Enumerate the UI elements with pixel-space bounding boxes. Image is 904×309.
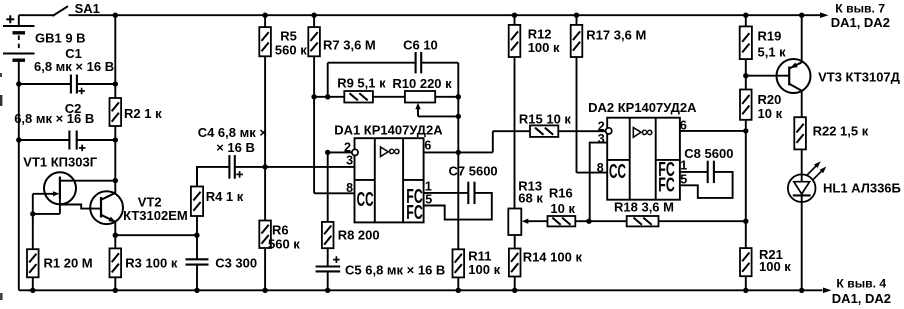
svg-text:R14 100 к: R14 100 к <box>523 250 583 265</box>
capacitor C3 <box>186 235 258 290</box>
svg-text:C8 5600: C8 5600 <box>684 146 733 161</box>
resistor R5 <box>259 15 307 167</box>
capacitor C1 <box>19 46 116 94</box>
R13 wiper arrow <box>522 219 548 224</box>
svg-text:GB1 9 В: GB1 9 В <box>35 31 86 46</box>
junction VT1 drain / VT2 collector <box>113 178 118 183</box>
svg-text:R2 1 к: R2 1 к <box>124 106 162 121</box>
svg-text:FC: FC <box>658 174 675 197</box>
svg-text:1: 1 <box>425 179 432 193</box>
svg-text:3: 3 <box>346 153 353 167</box>
svg-text:КТ3102ЕМ: КТ3102ЕМ <box>123 208 188 223</box>
svg-text:× 16 В: × 16 В <box>216 140 255 155</box>
svg-text:R3 100 к: R3 100 к <box>125 255 178 270</box>
wire VT1 source to VT2 base <box>60 205 101 209</box>
DA1 FC label pin5 <box>406 201 423 224</box>
wire VT2 emitter to R4/C3 <box>115 234 197 236</box>
junction top rail R7 <box>311 13 316 18</box>
svg-text:DA2 КР1407УД2А: DA2 КР1407УД2А <box>588 100 697 115</box>
svg-text:DA1, DA2: DA1, DA2 <box>831 15 890 30</box>
junction C2 left <box>16 137 21 142</box>
DA2 CC label <box>609 160 626 183</box>
wire top supply rail <box>69 14 821 16</box>
DA1 pin 6 wire <box>424 139 493 153</box>
DA2 pin 8 label <box>597 161 604 175</box>
svg-text:3: 3 <box>598 132 605 146</box>
svg-text:FC: FC <box>406 201 423 224</box>
svg-text:R20: R20 <box>758 92 782 107</box>
junction R14 ground <box>512 288 517 293</box>
junction top rail VT3 <box>799 13 804 18</box>
junction R19-R20-base <box>743 73 748 78</box>
transistor VT1 <box>23 155 97 205</box>
junction DA2 pin6 / R20 / R21 <box>743 128 748 133</box>
wire left rail <box>19 60 30 290</box>
junction R3 ground <box>113 288 118 293</box>
svg-text:C3 300: C3 300 <box>215 256 257 271</box>
transistor VT3 <box>777 15 901 117</box>
switch SA1 <box>19 1 100 16</box>
junction R6 ground <box>262 288 267 293</box>
DA1 pin 8 label <box>346 181 353 195</box>
svg-text:10 к: 10 к <box>550 201 575 216</box>
resistor R16 <box>548 185 590 226</box>
svg-text:R15 10 к: R15 10 к <box>519 112 572 127</box>
svg-text:DA1, DA2: DA1, DA2 <box>832 291 891 306</box>
DA1 FC label pin1 <box>406 185 423 208</box>
resistor R14 <box>509 235 583 290</box>
capacitor C6 <box>328 38 459 74</box>
svg-text:8: 8 <box>346 181 353 195</box>
junction top rail R2 <box>113 13 118 18</box>
junction HL1 ground <box>799 288 804 293</box>
junction C3 ground <box>194 288 199 293</box>
wire C6 left vertical <box>327 63 329 97</box>
capacitor C2 <box>14 101 115 151</box>
svg-text:C7 5600: C7 5600 <box>449 164 498 179</box>
svg-text:5: 5 <box>425 193 432 207</box>
svg-text:C6 10: C6 10 <box>403 38 438 53</box>
DA2 pin 3 wire <box>590 132 608 221</box>
resistor R15 <box>519 112 605 137</box>
svg-text:2: 2 <box>344 140 351 154</box>
junction VT2 emitter <box>113 233 118 238</box>
transistor VT2 <box>90 181 188 236</box>
resistor R19 <box>740 15 786 89</box>
resistor R17 <box>571 15 647 172</box>
battery GB1 <box>3 15 86 60</box>
junction C6/R9 row left <box>325 94 330 99</box>
svg-text:560 к: 560 к <box>275 43 307 58</box>
svg-text:5,1 к: 5,1 к <box>758 45 787 60</box>
junction C5 ground <box>325 288 330 293</box>
svg-text:10 к: 10 к <box>758 106 783 121</box>
svg-text:∞: ∞ <box>641 124 653 141</box>
wire R7 down to pin 8 <box>314 97 354 194</box>
resistor R2 <box>110 15 163 180</box>
svg-text:К выв. 7: К выв. 7 <box>835 1 885 15</box>
svg-text:R4 1 к: R4 1 к <box>206 189 244 204</box>
svg-text:R1 20 M: R1 20 M <box>44 255 93 270</box>
svg-text:8: 8 <box>597 161 604 175</box>
junction gate-source-R1 <box>30 211 35 216</box>
junction R11 ground <box>456 288 461 293</box>
resistor R1 <box>27 249 93 290</box>
svg-text:6: 6 <box>680 118 687 132</box>
resistor R3 <box>110 235 178 290</box>
resistor R20 <box>740 90 783 249</box>
junction top rail R17 <box>574 13 579 18</box>
resistor R11 <box>453 248 501 290</box>
R10 wiper arrow <box>415 103 458 117</box>
trimmer resistor R13 <box>508 179 543 236</box>
capacitor C4 <box>197 125 267 187</box>
scan artifacts <box>0 73 3 300</box>
svg-text:R6: R6 <box>272 222 289 237</box>
LED HL1 <box>788 161 901 290</box>
junction R18 to output node <box>743 219 748 224</box>
svg-text:R19: R19 <box>758 29 782 44</box>
wire R17 to DA2 pin 8 <box>577 172 608 174</box>
svg-text:R5: R5 <box>280 29 297 44</box>
wire VT1 gate down to R1 <box>32 194 34 249</box>
wire C6 right vertical / output bus to R11 <box>457 63 459 250</box>
svg-text:R22 1,5 к: R22 1,5 к <box>813 124 869 139</box>
op-amp DA1 <box>334 122 443 222</box>
svg-text:VT3 КТ3107Д: VT3 КТ3107Д <box>818 70 901 85</box>
junction R16/R18/pin3 node <box>586 219 591 224</box>
svg-text:100 к: 100 к <box>528 40 560 55</box>
svg-text:R8 200: R8 200 <box>338 228 380 243</box>
svg-text:∞: ∞ <box>388 143 400 160</box>
resistor R22 <box>794 117 868 175</box>
svg-text:R18 3,6 М: R18 3,6 М <box>614 200 674 215</box>
svg-text:5: 5 <box>680 172 687 186</box>
wire VT1 drain <box>60 180 115 182</box>
svg-text:C5 6,8 мк × 16 В: C5 6,8 мк × 16 В <box>345 263 445 278</box>
svg-text:R10 220 к: R10 220 к <box>392 76 452 91</box>
DA1 CC label <box>357 188 374 211</box>
junction R1 ground <box>30 288 35 293</box>
junction C1 right <box>113 81 118 86</box>
junction R10/C6 right <box>456 94 461 99</box>
resistor R8 <box>322 152 380 248</box>
svg-text:К выв. 4: К выв. 4 <box>836 276 886 290</box>
junction R7-R9 row <box>311 94 316 99</box>
arrow to pin 4 <box>823 276 891 306</box>
svg-text:6,8 мк × 16 В: 6,8 мк × 16 В <box>14 111 94 126</box>
svg-text:560 к: 560 к <box>268 236 300 251</box>
trimmer resistor R10 <box>373 76 458 103</box>
svg-text:R7 3,6 М: R7 3,6 М <box>323 38 376 53</box>
junction C4/R5/R6/pin3 node <box>262 164 267 169</box>
svg-text:DA1 КР1407УД2А: DA1 КР1407УД2А <box>334 122 443 137</box>
svg-text:6: 6 <box>424 139 431 153</box>
DA2 FC label pin1 <box>658 158 675 181</box>
arrow to pin 7 <box>820 1 890 30</box>
junction top rail R12 <box>512 13 517 18</box>
wire bottom ground rail <box>28 289 823 291</box>
op-amp DA2 <box>588 100 697 200</box>
junction top rail R19 <box>743 13 748 18</box>
svg-text:100 к: 100 к <box>468 262 500 277</box>
svg-text:68 к: 68 к <box>518 190 543 205</box>
resistor R21 <box>740 247 791 291</box>
DA2 FC label pin5 <box>658 174 675 197</box>
svg-text:100 к: 100 к <box>759 259 791 274</box>
resistor R6 <box>259 167 300 290</box>
junction C2 right <box>113 137 118 142</box>
resistor R4 <box>191 167 244 235</box>
resistor R9 <box>314 76 386 103</box>
capacitor C8 <box>680 146 734 198</box>
junction R4-C3 node <box>194 233 199 238</box>
junction pin6 output bus <box>456 150 461 155</box>
svg-text:R9 5,1 к: R9 5,1 к <box>337 76 386 91</box>
junction R21 ground <box>743 288 748 293</box>
capacitor C5 <box>316 248 446 290</box>
junction C1 left <box>16 81 21 86</box>
svg-text:SA1: SA1 <box>75 1 100 16</box>
DA2 pin 6 wire <box>680 118 746 132</box>
svg-text:CC: CC <box>357 188 374 211</box>
junction wiper to right bus <box>456 114 461 119</box>
resistor R12 <box>509 15 560 208</box>
DA2 pin 2 wire <box>598 119 612 134</box>
capacitor C7 <box>424 164 498 220</box>
svg-text:R16: R16 <box>549 185 573 200</box>
svg-text:HL1 АЛ336Б: HL1 АЛ336Б <box>823 181 901 196</box>
resistor R18 <box>589 200 746 227</box>
DA1 pin 3 wire <box>265 153 354 167</box>
wire VT3 base <box>746 75 789 77</box>
junction pin2-R8 <box>325 150 330 155</box>
DA1 pin 2 wire <box>328 140 358 155</box>
junction top rail R5 <box>262 13 267 18</box>
svg-text:6,8 мк × 16 В: 6,8 мк × 16 В <box>34 59 114 74</box>
wire DA1 output riser to R15 <box>493 131 530 152</box>
resistor R7 <box>308 15 375 97</box>
svg-text:VT1 КП303Г: VT1 КП303Г <box>23 155 97 170</box>
svg-text:CC: CC <box>609 160 626 183</box>
wire VT1 source down <box>33 199 60 214</box>
svg-text:C4 6,8 мк ×: C4 6,8 мк × <box>198 125 268 140</box>
svg-text:R17 3,6 М: R17 3,6 М <box>586 28 646 43</box>
